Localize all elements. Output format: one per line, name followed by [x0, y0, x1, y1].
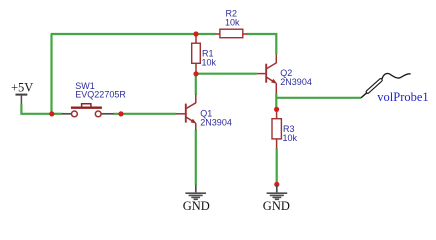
wire top rail right: [247, 34, 276, 55]
wire R3 bottom to ground: [276, 148, 278, 184]
svg-text:10k: 10k: [283, 133, 298, 143]
junction R1 top: [193, 31, 198, 36]
svg-text:2N3904: 2N3904: [200, 117, 232, 127]
wire +5V to node A: [21, 104, 51, 114]
junction R1 bottom: [193, 71, 198, 76]
wire Q1 emitter to ground: [195, 130, 197, 185]
wire left vertical riser: [50, 34, 52, 114]
wire R1 bottom to Q2 base: [196, 73, 257, 75]
wire node A to switch: [52, 113, 63, 115]
svg-text:GND: GND: [263, 199, 290, 213]
resistor R2: [215, 29, 247, 38]
wire switch to Q1 base: [113, 113, 176, 115]
junction R3 top: [274, 107, 279, 112]
transistor Q2: [257, 55, 277, 94]
resistor R1: [192, 35, 201, 74]
transistor Q1: [176, 95, 196, 131]
ground right: [267, 185, 288, 200]
ground left: [185, 185, 206, 200]
svg-text:volProbe1: volProbe1: [377, 90, 428, 104]
junction switch output: [118, 111, 123, 116]
junction node A: [49, 111, 54, 116]
wire R1 bottom to Q1 collector: [195, 74, 197, 95]
switch SW1: [62, 104, 114, 117]
svg-text:+5V: +5V: [11, 81, 33, 95]
wire top rail left: [51, 33, 216, 35]
svg-text:10k: 10k: [225, 17, 240, 27]
power +5V pin stub: [20, 95, 22, 105]
power +5V rail bar: [16, 94, 28, 96]
svg-text:GND: GND: [183, 199, 210, 213]
probe volProbe1: [361, 73, 411, 97]
svg-text:EVQ22705R: EVQ22705R: [75, 90, 126, 100]
wire probe branch: [276, 97, 361, 99]
resistor R3: [272, 110, 281, 149]
svg-text:10k: 10k: [202, 58, 217, 68]
junction R3 bottom: [274, 182, 279, 187]
svg-text:2N3904: 2N3904: [280, 77, 312, 87]
wire Q2 emitter down: [275, 93, 277, 107]
